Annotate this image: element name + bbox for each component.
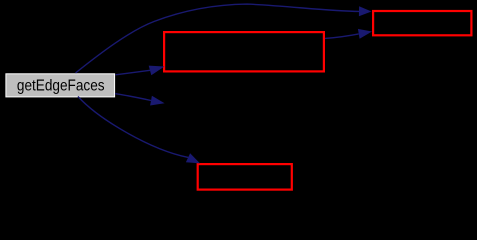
svg-text:getEdgeFaces: getEdgeFaces [17, 78, 105, 95]
node getEdgeFaces (current node, grey) [6, 74, 115, 97]
edge middle box -> top-right box [325, 29, 372, 39]
edge getEdgeFaces -> middle box [116, 66, 165, 76]
node (red box, middle) [164, 32, 324, 71]
edge getEdgeFaces -> hidden node [115, 94, 165, 106]
node (red box, bottom) [198, 164, 292, 190]
edge getEdgeFaces -> top-right box (long top curve) [76, 4, 372, 73]
edge getEdgeFaces -> bottom box (down curve) [78, 97, 200, 164]
node (red box, top right) [373, 11, 471, 35]
